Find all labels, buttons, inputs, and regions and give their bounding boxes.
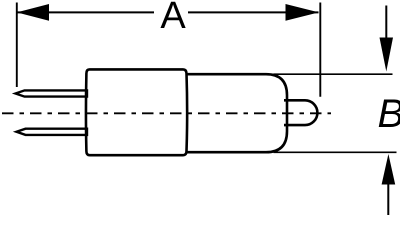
bulb base (ceramic body) (86, 69, 187, 155)
B up arrowhead (382, 154, 396, 185)
extension line bottom (dim B) (274, 151, 397, 153)
pin P2 (bottom) (17, 129, 88, 135)
dimension line A left segment (17, 11, 154, 13)
centerline (dash-dot axis) (2, 112, 331, 114)
extension line top (dim B) (274, 73, 393, 75)
svg-text:B: B (378, 92, 400, 136)
svg-text:A: A (160, 0, 186, 37)
dimension line A right segment (188, 11, 319, 13)
B down arrow shaft (385, 6, 387, 41)
bulb tip (pip) (284, 100, 317, 125)
glass envelope (186, 74, 288, 152)
arrowhead A right (286, 4, 319, 21)
extension line left (dim A) (16, 3, 18, 88)
B down arrowhead (380, 38, 394, 72)
arrowhead A left (17, 4, 49, 21)
extension line right (dim A) (319, 3, 321, 97)
B up arrow shaft (387, 183, 389, 215)
pin P1 (top) (16, 90, 88, 96)
